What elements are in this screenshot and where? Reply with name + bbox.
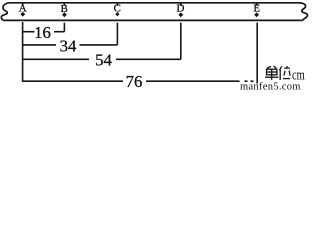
svg-text:D: D [177,3,185,15]
svg-text:16: 16 [34,23,51,42]
dimension line 16 right segment [54,31,64,33]
strip torn left edge [1,3,10,21]
dimension line 76 dash 1 [245,80,248,82]
unit label: hanzi 单 drawn as strokes [265,66,279,80]
strip top edge [10,2,300,4]
svg-text:76: 76 [126,72,143,90]
svg-text:E: E [253,3,260,15]
dropline from E [256,23,258,84]
svg-text:C: C [114,3,121,15]
svg-text:manfen5.com: manfen5.com [240,82,301,91]
tick mark point D [180,3,182,6]
dropline from C [116,23,118,45]
tick mark point B [63,3,65,6]
point dot E [254,12,259,17]
svg-text:54: 54 [95,50,112,69]
svg-text:A: A [19,3,27,15]
svg-text:34: 34 [60,36,77,55]
dimension line 54 right segment [116,58,181,60]
tick mark point A [22,3,24,6]
strip torn right edge [300,3,308,21]
dropline from A [22,22,24,82]
dimension line 34 right segment [80,44,118,46]
point dot B [62,12,67,17]
dimension line 76 left segment [23,80,123,82]
strip bottom edge [4,19,303,21]
dimension line 54 left segment [23,58,89,60]
tick mark point C [116,3,118,6]
point dot A [20,12,25,17]
dropline from D [180,23,182,60]
unit label: hanzi 位 drawn as strokes [279,66,290,80]
tick mark point E [256,3,258,6]
point dot D [178,12,183,17]
dimension line 16 left segment [23,31,35,33]
point dot C [115,12,119,16]
dimension line 76 right solid segment [146,80,240,82]
dimension line 76 dash 2 [251,80,254,82]
svg-text:B: B [61,3,68,15]
dimension line 34 left segment [23,44,56,46]
dropline from B [63,23,65,32]
